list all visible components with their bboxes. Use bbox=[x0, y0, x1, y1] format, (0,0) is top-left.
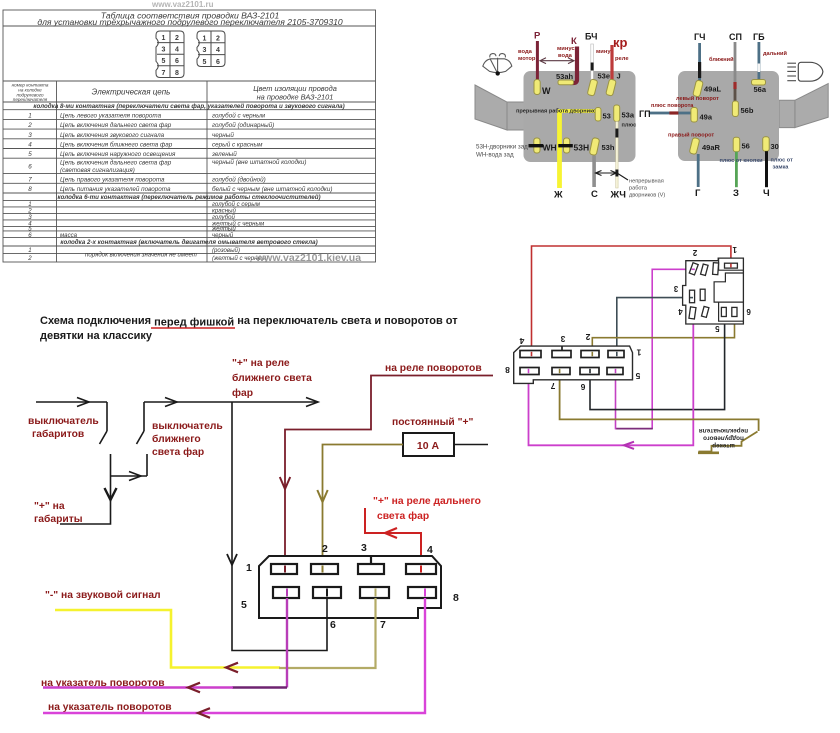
svg-text:белый с черным (вне штатной ко: белый с черным (вне штатной колодки) bbox=[212, 185, 333, 193]
svg-text:"+" на: "+" на bbox=[34, 501, 65, 512]
terminal 53H with black bar bbox=[564, 138, 570, 153]
thick yellow wire Zh (interrupted wiper) bbox=[558, 109, 596, 113]
svg-text:для установки трёхрычажного по: для установки трёхрычажного подрулевого … bbox=[37, 17, 343, 27]
wire GB blue with white band bbox=[758, 42, 761, 79]
svg-text:плюс от: плюс от bbox=[771, 158, 794, 164]
svg-text:1: 1 bbox=[203, 35, 207, 42]
svg-text:С: С bbox=[591, 189, 598, 200]
light switch body U2 bbox=[678, 71, 779, 161]
svg-text:8: 8 bbox=[28, 186, 32, 193]
svg-text:WH: WH bbox=[543, 143, 557, 153]
svg-text:Цепь питания указателей поворо: Цепь питания указателей поворота bbox=[60, 185, 171, 193]
svg-text:на проводке ВАЗ-2101: на проводке ВАЗ-2101 bbox=[257, 93, 334, 102]
svg-text:плюс: плюс bbox=[622, 123, 637, 129]
olive wire from pin7 bbox=[279, 598, 376, 668]
double arrow between S and ZhCh bbox=[596, 171, 629, 181]
svg-text:кр: кр bbox=[613, 35, 628, 50]
svg-text:вода: вода bbox=[518, 49, 533, 55]
connector key 8-pin pinout diagram bbox=[156, 31, 184, 78]
wire maroon to turn relay / pin1 bbox=[280, 376, 493, 572]
wiper switch body U1 bbox=[524, 71, 636, 162]
svg-text:на указатель поворотов: на указатель поворотов bbox=[48, 702, 172, 713]
svg-text:черный: черный bbox=[212, 131, 234, 139]
svg-text:Р: Р bbox=[534, 31, 541, 42]
table section 2 rows bbox=[27, 201, 265, 239]
svg-text:работа: работа bbox=[629, 186, 648, 192]
connector plug X1 (9-style, drawn rotated 180) bbox=[683, 258, 744, 324]
svg-text:5: 5 bbox=[635, 371, 640, 381]
svg-text:света фар: света фар bbox=[377, 510, 429, 522]
wire stubs inside X3 pins bbox=[285, 566, 425, 597]
fuse right lead bbox=[454, 444, 488, 446]
svg-text:Ч: Ч bbox=[763, 188, 770, 199]
svg-text:"+" на реле дальнего: "+" на реле дальнего bbox=[373, 496, 481, 507]
terminal 56 bbox=[733, 137, 740, 152]
wire red to pin4 bbox=[365, 508, 421, 571]
terminal W bbox=[534, 80, 540, 95]
svg-text:1: 1 bbox=[28, 247, 31, 254]
terminal 30 bbox=[763, 137, 770, 152]
svg-text:Цепь включения наружного освещ: Цепь включения наружного освещения bbox=[60, 151, 176, 158]
svg-text:W: W bbox=[542, 86, 551, 96]
svg-text:плюс от кнопки: плюс от кнопки bbox=[720, 158, 764, 164]
terminal J bbox=[606, 79, 617, 96]
svg-text:53: 53 bbox=[603, 112, 611, 121]
svg-text:www.vaz2101.kiev.ua: www.vaz2101.kiev.ua bbox=[255, 252, 361, 264]
svg-text:Ж: Ж bbox=[553, 190, 563, 201]
wire GCh blue with black band bbox=[698, 43, 701, 81]
svg-text:масса: масса bbox=[60, 232, 78, 239]
svg-text:5: 5 bbox=[715, 324, 720, 333]
svg-text:2: 2 bbox=[216, 35, 220, 42]
svg-text:подрулевого: подрулевого bbox=[703, 435, 744, 442]
table section 3 rows bbox=[27, 247, 268, 262]
svg-text:света фар: света фар bbox=[152, 446, 204, 458]
svg-text:реле: реле bbox=[615, 56, 629, 62]
light switch stalk bbox=[795, 84, 828, 128]
wire red: block X2 pin4 to plug X1 pin1 bbox=[532, 246, 731, 351]
block X2 pins row 8-7-6-5 bbox=[520, 368, 539, 375]
svg-text:6: 6 bbox=[330, 619, 336, 631]
wire G blue bbox=[697, 154, 700, 187]
svg-text:СП: СП bbox=[729, 32, 742, 42]
wire GP (plus povorota) bbox=[649, 112, 691, 115]
svg-text:3: 3 bbox=[162, 47, 166, 54]
svg-text:Цепь включения дальнего света: Цепь включения дальнего света фар bbox=[60, 121, 172, 129]
svg-text:ГБ: ГБ bbox=[753, 32, 765, 42]
svg-text:1: 1 bbox=[246, 562, 252, 574]
svg-text:БЧ: БЧ bbox=[585, 32, 597, 42]
black wire pin6 loop bbox=[232, 402, 327, 651]
svg-text:ближнего света: ближнего света bbox=[232, 372, 312, 384]
svg-text:10 А: 10 А bbox=[417, 440, 440, 452]
wire BCh white with black band bbox=[591, 44, 594, 81]
svg-text:девятки на классику: девятки на классику bbox=[40, 330, 153, 342]
terminal 53ah bbox=[558, 80, 574, 85]
red underline of "pered fishkoy" bbox=[151, 327, 235, 329]
table section 1 rows bbox=[27, 111, 332, 193]
svg-text:"+" на реле: "+" на реле bbox=[232, 358, 290, 369]
wire black loop: block X2 pin6 to plug X1 pin6a bbox=[590, 317, 725, 410]
connector block X2 (8-pin, drawn rotated 180) bbox=[514, 346, 633, 383]
wire stubs inside X2 pins bbox=[529, 352, 617, 373]
svg-text:З: З bbox=[733, 188, 739, 199]
svg-text:ГП: ГП bbox=[639, 109, 651, 119]
svg-text:выключатель: выключатель bbox=[152, 421, 223, 432]
terminal 56b bbox=[732, 101, 738, 117]
rotated caption: shtekker podrulevogo perekliuchatelia bbox=[699, 427, 748, 449]
terminal 53a bbox=[614, 105, 620, 122]
svg-text:переключателя: переключателя bbox=[13, 97, 48, 102]
svg-text:49a: 49a bbox=[700, 113, 713, 122]
svg-text:5: 5 bbox=[203, 59, 207, 66]
svg-text:4: 4 bbox=[519, 336, 524, 346]
svg-text:56a: 56a bbox=[754, 85, 767, 94]
X3 pins bottom row 5-8 bbox=[273, 587, 299, 598]
block X2 pins row 4-3-2-1 bbox=[520, 346, 624, 374]
svg-text:4: 4 bbox=[427, 544, 433, 556]
svg-text:6: 6 bbox=[175, 58, 179, 65]
svg-text:черный: черный bbox=[212, 232, 234, 239]
svg-text:голубой (одинарный): голубой (одинарный) bbox=[212, 121, 274, 129]
svg-text:4: 4 bbox=[175, 47, 179, 54]
wire olive: plug X1 pin6b to block X2 pin2 bbox=[592, 317, 734, 351]
harness tail hook bbox=[699, 432, 758, 452]
headlight icon bbox=[798, 62, 823, 81]
svg-text:Цепь включения звукового сигна: Цепь включения звукового сигнала bbox=[60, 132, 165, 139]
svg-text:6: 6 bbox=[746, 307, 751, 316]
wire stubs inside X1 slots bbox=[690, 264, 731, 298]
svg-text:К: К bbox=[571, 36, 577, 47]
svg-text:черный (вне штатной колодки): черный (вне штатной колодки) bbox=[212, 158, 307, 166]
minus voda double arrow bbox=[540, 58, 574, 64]
svg-text:1: 1 bbox=[162, 35, 166, 42]
svg-text:53ah: 53ah bbox=[556, 72, 574, 81]
svg-text:Цепь правого указателя поворот: Цепь правого указателя поворота bbox=[60, 176, 165, 183]
svg-text:53e: 53e bbox=[598, 72, 611, 81]
connector X3 (main 8-pin block) bbox=[259, 556, 441, 618]
svg-text:выключатель: выключатель bbox=[28, 416, 99, 427]
svg-text:голубой с черным: голубой с черным bbox=[212, 111, 266, 119]
svg-text:3: 3 bbox=[673, 284, 678, 293]
svg-text:4: 4 bbox=[216, 47, 220, 54]
svg-text:2: 2 bbox=[322, 543, 328, 555]
svg-text:колодка 8-ми контактная (перек: колодка 8-ми контактная (переключатели с… bbox=[33, 103, 344, 110]
wiring correspondence table frame bbox=[3, 10, 376, 262]
svg-text:6: 6 bbox=[28, 164, 32, 171]
svg-text:5: 5 bbox=[162, 58, 166, 65]
svg-text:ЖЧ: ЖЧ bbox=[610, 190, 627, 201]
svg-text:WH-вода зад: WH-вода зад bbox=[476, 152, 514, 159]
svg-text:ГЧ: ГЧ bbox=[694, 32, 705, 42]
svg-text:колодка 6-ти контактная (перек: колодка 6-ти контактная (переключатель р… bbox=[57, 194, 320, 201]
svg-text:3: 3 bbox=[560, 334, 565, 344]
plug X1 slots bbox=[689, 263, 737, 319]
svg-text:53Н-дворники зад: 53Н-дворники зад bbox=[476, 144, 528, 151]
svg-text:8: 8 bbox=[175, 70, 179, 77]
connector key 6-pin pinout diagram bbox=[197, 31, 225, 67]
svg-text:"-" на звуковой сигнал: "-" на звуковой сигнал bbox=[45, 590, 161, 601]
table title bbox=[37, 11, 343, 28]
svg-text:6: 6 bbox=[580, 382, 585, 392]
svg-text:на реле поворотов: на реле поворотов bbox=[385, 363, 482, 374]
svg-text:габаритов: габаритов bbox=[32, 428, 84, 440]
svg-text:1: 1 bbox=[636, 348, 641, 358]
svg-text:плюс поворота: плюс поворота bbox=[651, 103, 694, 109]
svg-text:дворников (V): дворников (V) bbox=[629, 193, 665, 199]
svg-text:4: 4 bbox=[28, 142, 32, 149]
plug X1 pin number labels (rotated) bbox=[673, 245, 751, 333]
wire olive: block X2 pin7 to harness tail bbox=[560, 375, 759, 432]
svg-text:Цепь включения дальнего света: Цепь включения дальнего света фар bbox=[60, 159, 172, 167]
svg-text:левый поворот: левый поворот bbox=[676, 95, 719, 102]
svg-text:3: 3 bbox=[361, 542, 367, 554]
wiper switch stalk bbox=[475, 85, 507, 130]
svg-text:7: 7 bbox=[28, 176, 32, 183]
wire Z green bbox=[735, 152, 738, 188]
svg-text:1: 1 bbox=[732, 245, 737, 254]
switch S2 (vykliuchatel blizhnego sveta far) bbox=[137, 402, 148, 476]
svg-text:Цепь включения ближнего света: Цепь включения ближнего света фар bbox=[60, 141, 173, 149]
svg-text:порядок включения значения не: порядок включения значения не имеет bbox=[85, 252, 197, 259]
svg-text:ближний: ближний bbox=[709, 56, 734, 63]
terminal 56a bbox=[752, 80, 766, 86]
table header texts bbox=[12, 83, 337, 103]
svg-text:J: J bbox=[617, 72, 621, 81]
wire ZhCh pale with black band bbox=[616, 122, 618, 189]
wiper icon bbox=[483, 54, 512, 74]
svg-text:7: 7 bbox=[550, 381, 555, 391]
svg-text:8: 8 bbox=[453, 592, 459, 604]
svg-text:8: 8 bbox=[505, 365, 510, 375]
main supply wire (black) with arrows bbox=[36, 398, 318, 407]
svg-text:1: 1 bbox=[28, 112, 32, 119]
svg-text:правый поворот: правый поворот bbox=[668, 132, 714, 139]
svg-text:замка: замка bbox=[773, 165, 790, 171]
svg-text:колодка 2-х контактная (включа: колодка 2-х контактная (включатель двига… bbox=[60, 239, 317, 246]
terminal 49aL bbox=[693, 80, 704, 97]
switch S1 (vykliuchatel gabaritov) bbox=[100, 402, 111, 476]
fuse F1 10A bbox=[403, 433, 454, 456]
svg-text:Г: Г bbox=[695, 188, 701, 199]
svg-text:(розовый): (розовый) bbox=[212, 247, 240, 254]
wire to gabarity with arrows bbox=[60, 472, 147, 525]
svg-text:30: 30 bbox=[771, 142, 779, 151]
X3 pins top row 1-4 bbox=[271, 556, 436, 598]
svg-text:прерывная работа дворников: прерывная работа дворников bbox=[516, 108, 600, 115]
svg-text:7: 7 bbox=[162, 70, 166, 77]
wire magenta-2: plug X1 pin4 to block X2 pin8 bbox=[529, 322, 694, 445]
svg-text:2: 2 bbox=[692, 248, 697, 257]
svg-text:штекер: штекер bbox=[712, 442, 735, 449]
svg-text:4: 4 bbox=[678, 307, 683, 316]
svg-text:56: 56 bbox=[742, 142, 750, 151]
svg-text:серый с красным: серый с красным bbox=[212, 141, 263, 149]
svg-text:2: 2 bbox=[27, 255, 32, 262]
svg-text:56b: 56b bbox=[741, 106, 754, 115]
wire Ch black bbox=[765, 151, 768, 187]
svg-text:53H: 53H bbox=[574, 143, 590, 153]
svg-text:переключателя: переключателя bbox=[699, 427, 748, 434]
svg-text:www.vaz2101.ru: www.vaz2101.ru bbox=[151, 0, 214, 9]
svg-text:ближнего: ближнего bbox=[152, 433, 201, 445]
svg-text:Схема подключения перед фишкой: Схема подключения перед фишкой на перекл… bbox=[40, 315, 458, 329]
wire olive from fuse to pin2 bbox=[317, 445, 403, 572]
wire P (voda motor) bbox=[536, 41, 539, 80]
svg-text:5: 5 bbox=[241, 599, 247, 611]
svg-text:Цепь левого указателя поворота: Цепь левого указателя поворота bbox=[60, 112, 162, 119]
wire dark slate: plug X1 pin3 to block X2 pin1 bbox=[617, 298, 691, 351]
svg-text:3: 3 bbox=[203, 47, 207, 54]
svg-text:фар: фар bbox=[232, 387, 253, 399]
svg-text:53h: 53h bbox=[602, 143, 615, 152]
svg-text:непрерывная: непрерывная bbox=[629, 179, 664, 185]
svg-text:постоянный "+": постоянный "+" bbox=[392, 417, 473, 428]
svg-text:7: 7 bbox=[380, 619, 386, 631]
terminal 49a bbox=[691, 108, 698, 123]
terminal 53 bbox=[595, 108, 601, 122]
svg-text:Электрическая цепь: Электрическая цепь bbox=[92, 88, 171, 97]
wire kr (relay) red bbox=[610, 45, 613, 80]
svg-text:2: 2 bbox=[27, 122, 32, 129]
wire S gray bbox=[592, 156, 596, 188]
svg-text:53a: 53a bbox=[622, 111, 635, 120]
wire magenta-1: plug X1 pin2 to block X2 pin5 bbox=[652, 269, 694, 428]
block X2 pin number labels (rotated) bbox=[505, 332, 642, 392]
svg-text:вода: вода bbox=[558, 53, 573, 59]
terminal WH with black bar bbox=[534, 138, 540, 153]
svg-text:дальний: дальний bbox=[763, 50, 787, 57]
svg-text:2: 2 bbox=[585, 332, 590, 342]
svg-text:49aL: 49aL bbox=[704, 85, 722, 94]
svg-text:3: 3 bbox=[28, 132, 32, 139]
terminal 53h bbox=[589, 137, 599, 155]
terminal 49aR bbox=[689, 137, 700, 154]
svg-text:голубой (двойной): голубой (двойной) bbox=[212, 175, 266, 183]
svg-text:5: 5 bbox=[28, 151, 32, 158]
terminal 53e bbox=[587, 79, 598, 96]
svg-text:6: 6 bbox=[216, 59, 220, 66]
svg-text:габариты: габариты bbox=[34, 513, 83, 525]
svg-text:49aR: 49aR bbox=[702, 143, 721, 152]
svg-text:2: 2 bbox=[175, 35, 179, 42]
arrowhead on magenta-2 bbox=[624, 442, 634, 449]
wire K (minus voda) thick maroon L bbox=[570, 47, 577, 84]
wire SP gray with red band bbox=[734, 42, 737, 106]
svg-text:(световая сигнализация): (световая сигнализация) bbox=[60, 167, 135, 174]
table column lines bbox=[56, 81, 58, 262]
svg-text:зеленый: зеленый bbox=[211, 150, 237, 158]
svg-text:мотор: мотор bbox=[518, 56, 536, 62]
